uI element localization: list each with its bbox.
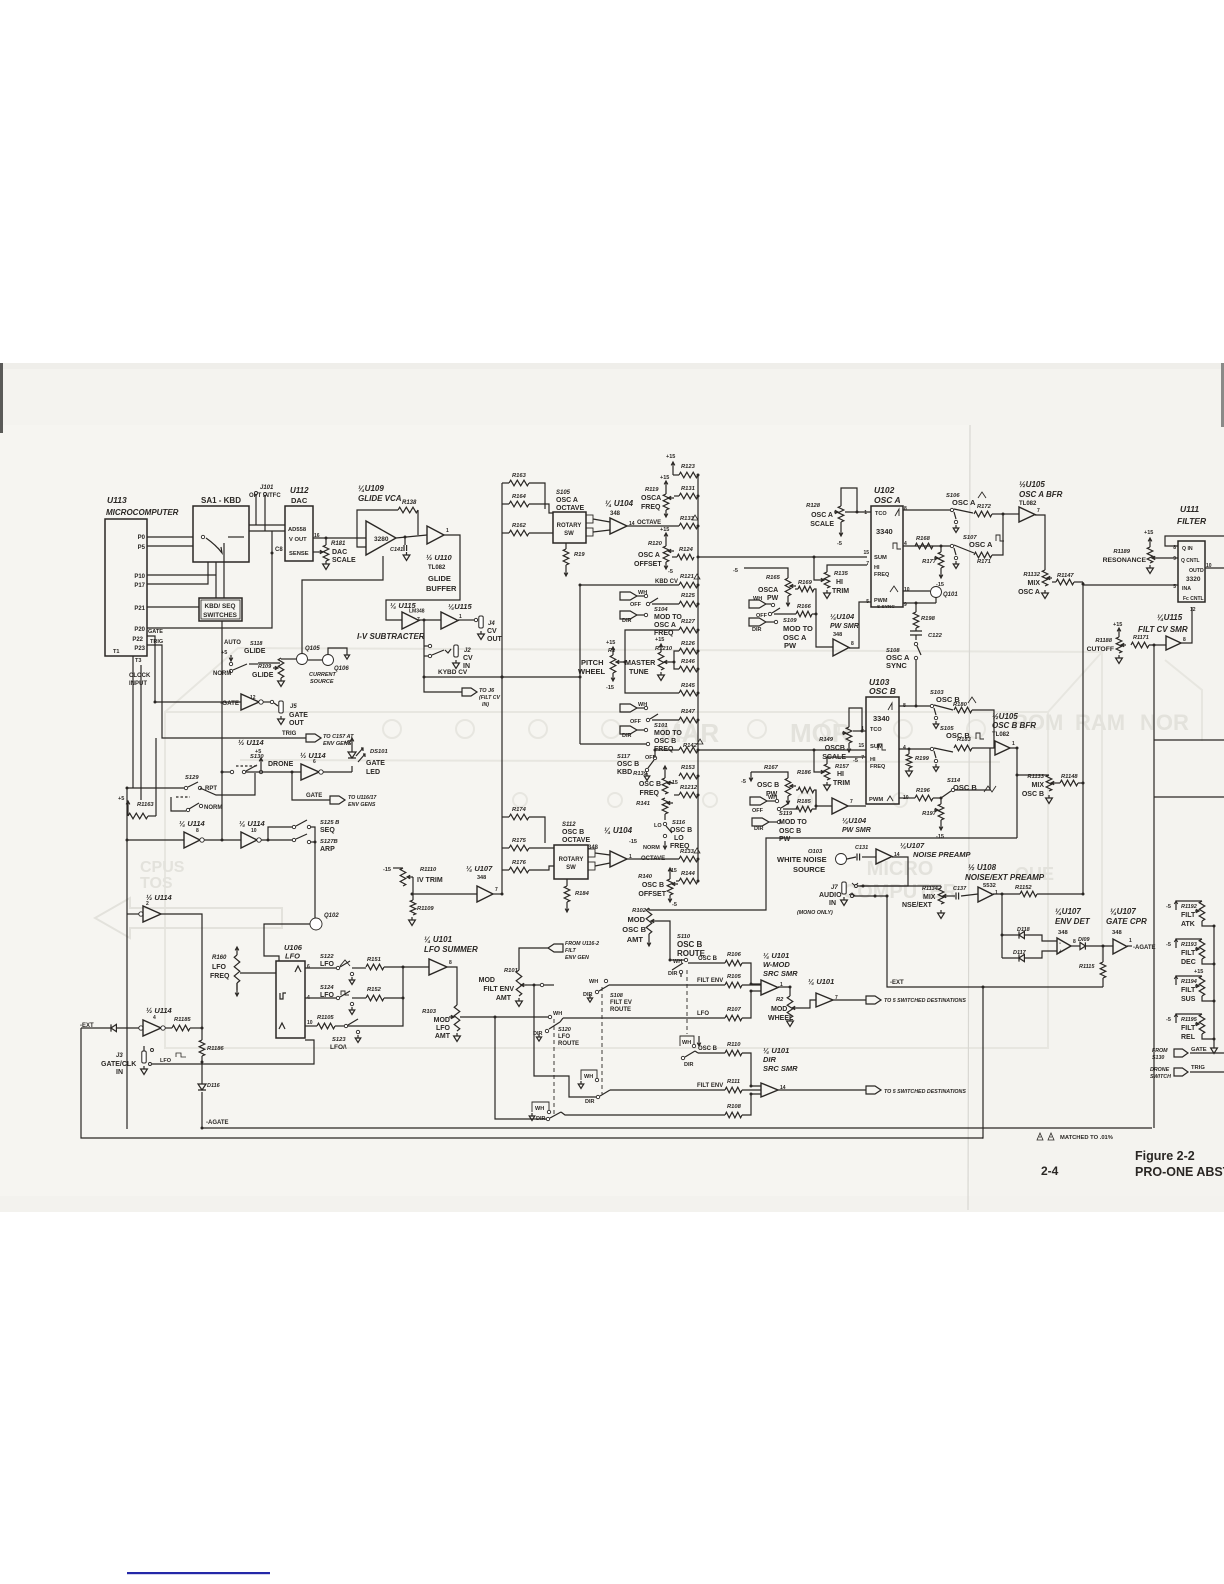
svg-text:R121: R121 (680, 574, 694, 580)
svg-text:¼U104: ¼U104 (830, 612, 855, 621)
svg-text:TL082: TL082 (1019, 501, 1037, 507)
svg-text:OSC B BFR: OSC B BFR (992, 721, 1036, 730)
resistor R174 (509, 814, 529, 820)
svg-text:DIR: DIR (754, 826, 764, 832)
svg-text:10: 10 (904, 587, 910, 593)
resistor R152 (352, 997, 366, 999)
svg-text:R1188: R1188 (1095, 638, 1112, 644)
wire cutoff down (1153, 645, 1155, 1128)
wire pwsmr A out (849, 602, 871, 648)
svg-text:½ U110: ½ U110 (426, 553, 453, 562)
svg-text:SWITCHES: SWITCHES (203, 612, 237, 619)
svg-text:OFFSET: OFFSET (638, 891, 666, 898)
wire resonance to pin (1157, 557, 1178, 559)
switch inside SA1-KBD (201, 535, 204, 538)
svg-text:SUS: SUS (1181, 996, 1196, 1003)
resistor R145 (679, 690, 698, 696)
note matched (1037, 1133, 1043, 1140)
svg-text:R1186: R1186 (207, 1046, 224, 1052)
wire filt env down (534, 985, 596, 1097)
resistor R121 warn (679, 582, 698, 588)
svg-text:R119: R119 (645, 487, 659, 493)
svg-text:LM348: LM348 (409, 609, 425, 615)
svg-text:SENSE: SENSE (289, 551, 309, 557)
svg-text:ATK: ATK (1181, 921, 1195, 928)
wire noise mix rails (852, 895, 887, 897)
svg-text:NSE/EXT: NSE/EXT (902, 902, 933, 909)
wire octave B (627, 858, 679, 860)
svg-text:J2: J2 (464, 648, 471, 654)
wire mod lfo line (460, 1016, 548, 1018)
svg-text:SUM: SUM (870, 744, 883, 750)
svg-text:R1192: R1192 (1181, 904, 1197, 910)
wire KYBD CV (424, 676, 580, 678)
svg-text:R128: R128 (806, 503, 821, 509)
svg-text:SCALE: SCALE (822, 754, 846, 761)
wire current source feed (302, 556, 383, 654)
resistor R105 (725, 982, 742, 988)
svg-text:MIX: MIX (923, 894, 936, 901)
wire mix wiper (948, 895, 955, 897)
svg-text:Figure 2-2: Figure 2-2 (1135, 1149, 1195, 1163)
svg-text:R186: R186 (797, 770, 812, 776)
svg-text:R163: R163 (512, 473, 527, 479)
wire LFO dir row (561, 1112, 725, 1115)
svg-text:MOD: MOD (771, 1006, 787, 1013)
svg-text:R1212: R1212 (680, 785, 698, 791)
wire summer out (447, 967, 457, 1005)
svg-text:8: 8 (1073, 939, 1076, 945)
svg-text:+5: +5 (255, 749, 261, 755)
svg-text:S105: S105 (556, 490, 571, 496)
svg-text:R147: R147 (681, 709, 696, 715)
wire LFO row (563, 1017, 725, 1019)
svg-text:MOD: MOD (434, 1017, 450, 1024)
wire subtracter to kybd cv (423, 620, 425, 677)
wire +5 drop (127, 810, 129, 816)
svg-text:OSC B: OSC B (698, 1046, 718, 1052)
flag FROM U116-2 (548, 944, 563, 952)
svg-text:1: 1 (446, 528, 449, 534)
svg-text:R103: R103 (422, 1009, 437, 1015)
svg-text:LFO: LFO (285, 952, 300, 961)
flag WH mod A (620, 592, 637, 600)
svg-text:7: 7 (495, 887, 498, 893)
svg-text:DRONE: DRONE (268, 761, 294, 768)
svg-text:TRIG: TRIG (1191, 1065, 1205, 1071)
svg-text:REL: REL (1181, 1034, 1196, 1041)
resistor R1185 (165, 1027, 172, 1029)
svg-text:R152: R152 (367, 987, 382, 993)
svg-text:¼ U114: ¼ U114 (239, 819, 266, 828)
svg-text:LFO SUMMER: LFO SUMMER (424, 945, 478, 954)
wire inverter input (127, 839, 184, 841)
svg-text:R144: R144 (681, 871, 696, 877)
svg-text:COMPUTER: COMPUTER (843, 881, 958, 903)
svg-text:D116: D116 (207, 1083, 221, 1089)
wire filt env wiper (527, 984, 540, 986)
svg-text:SWITCH: SWITCH (1150, 1074, 1171, 1080)
svg-text:Q106: Q106 (334, 666, 349, 672)
wire u108 out (993, 893, 1020, 895)
svg-text:-5: -5 (837, 541, 842, 547)
wire bfr B out (1010, 748, 1017, 838)
wire subtracter link (419, 619, 441, 621)
svg-text:FILT CV SMR: FILT CV SMR (1138, 625, 1188, 634)
svg-text:U111: U111 (1180, 504, 1199, 514)
svg-text:P20: P20 (134, 627, 145, 633)
svg-text:OSC B: OSC B (642, 882, 664, 889)
svg-text:R126: R126 (681, 641, 696, 647)
wire bfr A out (1035, 515, 1045, 570)
svg-text:3340: 3340 (876, 527, 893, 536)
svg-text:8: 8 (449, 960, 452, 966)
wire filt env dir row (610, 1089, 725, 1091)
svg-text:AMT: AMT (496, 995, 512, 1002)
wire Q IN loop (1165, 536, 1224, 546)
svg-text:OSCB: OSCB (825, 745, 845, 752)
svg-text:R199: R199 (915, 756, 930, 762)
wire osc mix down (649, 838, 1017, 910)
svg-text:½ U114: ½ U114 (146, 893, 173, 902)
svg-text:OFF: OFF (630, 602, 642, 608)
svg-text:NORM: NORM (213, 671, 231, 677)
svg-text:IN: IN (829, 900, 836, 907)
svg-text:Q CNTL: Q CNTL (1181, 558, 1200, 564)
svg-text:R111: R111 (727, 1079, 740, 1085)
svg-text:R123: R123 (681, 464, 696, 470)
wire SA1-KBD to DAC (249, 524, 285, 526)
svg-text:DIR: DIR (583, 992, 593, 998)
svg-text:-15: -15 (383, 867, 391, 873)
svg-text:P10: P10 (134, 574, 145, 580)
svg-text:-5: -5 (672, 902, 677, 908)
svg-text:LFO: LFO (160, 1058, 172, 1064)
svg-text:R102: R102 (632, 908, 647, 914)
svg-text:1: 1 (1012, 741, 1015, 747)
svg-text:OSC B: OSC B (779, 828, 801, 835)
svg-text:-AGATE: -AGATE (206, 1120, 229, 1126)
svg-text:OFF: OFF (752, 808, 764, 814)
svg-text:PW: PW (767, 595, 779, 602)
wire GATE from P22 (147, 636, 241, 702)
svg-text:PRO-ONE ABSTI: PRO-ONE ABSTI (1135, 1165, 1224, 1179)
svg-text:6: 6 (307, 964, 310, 970)
wire OUTD (1205, 567, 1224, 569)
wire to destinations 2 (778, 1089, 866, 1091)
wire osc b dir row (698, 1052, 725, 1054)
svg-text:FROM: FROM (1152, 1048, 1168, 1054)
svg-text:S119: S119 (779, 811, 793, 817)
opamp U104 PW SMR B (832, 798, 848, 814)
svg-text:ROUTE: ROUTE (610, 1007, 631, 1013)
resistor R151 (352, 967, 366, 969)
svg-text:OSC A: OSC A (874, 495, 901, 505)
flag DIR pwB (752, 818, 769, 826)
ground below R181 (323, 561, 330, 569)
switch S108 filt ev route (540, 983, 543, 986)
IC U106 LFO (276, 961, 305, 1038)
svg-text:348: 348 (1112, 930, 1122, 936)
svg-text:OSC B: OSC B (562, 829, 584, 836)
svg-text:¼ U101: ¼ U101 (763, 1046, 789, 1055)
svg-text:LFO: LFO (558, 1034, 570, 1040)
svg-text:ROTARY: ROTARY (557, 523, 582, 529)
svg-text:R1148: R1148 (1061, 774, 1078, 780)
resistor R163 (509, 480, 529, 486)
svg-text:C122: C122 (928, 633, 943, 639)
svg-text:DIR: DIR (622, 618, 632, 624)
svg-text:R1134: R1134 (922, 886, 938, 892)
blue underline bottom left (127, 1572, 270, 1574)
svg-text:R1195: R1195 (1181, 1017, 1198, 1023)
svg-text:R184: R184 (575, 891, 590, 897)
svg-text:OSC A: OSC A (638, 552, 660, 559)
svg-text:R151: R151 (367, 957, 381, 963)
svg-text:5532: 5532 (983, 883, 996, 889)
svg-text:-EXT: -EXT (890, 980, 904, 986)
svg-text:MOD TO: MOD TO (654, 730, 682, 737)
svg-text:R166: R166 (797, 604, 812, 610)
resistor R19 (565, 543, 567, 549)
svg-text:1: 1 (459, 614, 462, 620)
svg-text:GATE: GATE (366, 760, 385, 767)
flag to 5 switched 1 (866, 996, 881, 1004)
svg-text:R105: R105 (727, 974, 742, 980)
svg-text:LFO: LFO (320, 961, 335, 968)
svg-text:KBD: KBD (617, 769, 632, 776)
svg-text:OSC B: OSC B (1022, 791, 1044, 798)
svg-text:P17: P17 (134, 583, 145, 589)
svg-text:MATCHED TO .01%: MATCHED TO .01% (1060, 1135, 1113, 1141)
svg-text:OUTD: OUTD (1189, 568, 1204, 574)
wire kbd cv to S101 (580, 743, 646, 745)
svg-text:DIR: DIR (668, 971, 678, 977)
svg-text:P5: P5 (138, 545, 146, 551)
wire agate out (1127, 945, 1132, 947)
svg-text:FILT ENV: FILT ENV (697, 978, 723, 984)
svg-text:TL082: TL082 (428, 565, 446, 571)
svg-text:SYNC: SYNC (886, 661, 907, 670)
resistor R124 (677, 554, 694, 560)
svg-text:LFO: LFO (436, 1025, 451, 1032)
svg-text:R162: R162 (512, 523, 527, 529)
transistor Q102 (310, 918, 322, 930)
svg-text:3280: 3280 (374, 536, 389, 543)
svg-text:348: 348 (833, 632, 842, 638)
svg-text:¼ U101: ¼ U101 (763, 951, 789, 960)
wire bus main (697, 475, 699, 881)
svg-text:348: 348 (1058, 930, 1068, 936)
svg-text:TRIM: TRIM (833, 780, 850, 787)
resistor R1109 (412, 877, 414, 900)
svg-text:INPUT: INPUT (129, 681, 147, 687)
svg-text:SCALE: SCALE (332, 557, 356, 564)
svg-text:¼ U101: ¼ U101 (808, 977, 834, 986)
svg-text:P22: P22 (132, 637, 143, 643)
svg-text:¼U104: ¼U104 (842, 816, 867, 825)
resistor R153 (679, 773, 698, 779)
svg-text:C131: C131 (855, 845, 868, 851)
svg-text:MICROCOMPUTER: MICROCOMPUTER (106, 508, 179, 517)
svg-text:NOISE PREAMP: NOISE PREAMP (913, 850, 972, 859)
svg-text:+5: +5 (344, 740, 350, 746)
svg-text:ROUTE: ROUTE (558, 1041, 579, 1047)
svg-text:P21: P21 (134, 606, 145, 612)
svg-text:R140: R140 (638, 874, 653, 880)
svg-text:½ U108: ½ U108 (968, 863, 997, 872)
svg-text:OCTAVE: OCTAVE (637, 520, 661, 526)
svg-text:OFF: OFF (630, 719, 642, 725)
svg-text:R1110: R1110 (420, 867, 437, 873)
svg-text:IN): IN) (482, 702, 489, 708)
svg-text:R2: R2 (776, 997, 784, 1003)
wire Q106 collector (328, 648, 347, 654)
svg-text:FREQ: FREQ (654, 630, 674, 637)
svg-text:R1133: R1133 (1027, 774, 1044, 780)
svg-text:SW: SW (564, 531, 574, 537)
wire left octave rail (501, 483, 503, 894)
switch S125B SEQ (292, 825, 295, 828)
svg-text:WH: WH (553, 1011, 562, 1017)
svg-text:-AGATE: -AGATE (1133, 945, 1156, 951)
svg-text:OSC A: OSC A (556, 497, 578, 504)
svg-text:½ U114: ½ U114 (238, 738, 265, 747)
svg-text:PWM: PWM (869, 797, 883, 803)
svg-text:TO 5 SWITCHED DESTINATIONS: TO 5 SWITCHED DESTINATIONS (884, 998, 966, 1004)
svg-text:-5: -5 (853, 758, 858, 764)
resistor R168 (915, 543, 933, 549)
svg-text:¼ U104: ¼ U104 (604, 826, 633, 835)
svg-text:SA1 - KBD: SA1 - KBD (201, 496, 241, 505)
svg-text:R174: R174 (512, 807, 527, 813)
svg-text:FILT: FILT (1181, 912, 1196, 919)
svg-text:R196: R196 (916, 788, 931, 794)
svg-text:J3: J3 (116, 1053, 123, 1059)
svg-text:DAC: DAC (332, 549, 347, 556)
svg-text:R1194: R1194 (1181, 979, 1197, 985)
wire osc b row (688, 962, 725, 964)
wire wmod out (778, 987, 790, 996)
resistor R164 (509, 501, 529, 507)
svg-text:Q101: Q101 (943, 592, 958, 598)
svg-text:NOISE/EXT PREAMP: NOISE/EXT PREAMP (965, 873, 1045, 882)
svg-text:SOURCE: SOURCE (310, 679, 334, 685)
svg-text:S116: S116 (672, 820, 686, 826)
resistor R196 (915, 795, 933, 801)
wire rpt to drone (200, 773, 255, 795)
svg-text:MOD TO: MOD TO (783, 624, 813, 633)
LED DS101 (323, 771, 352, 773)
svg-text:R1115: R1115 (1079, 964, 1095, 970)
svg-text:R108: R108 (727, 1104, 742, 1110)
svg-text:S101: S101 (654, 723, 668, 729)
resistor R199 (908, 749, 910, 754)
svg-text:Fc CNTL: Fc CNTL (1183, 596, 1204, 602)
wire cv buffer out (493, 893, 502, 895)
svg-text:RESONANCE: RESONANCE (1103, 557, 1147, 564)
wire GATE tap (292, 772, 330, 800)
svg-text:TRIG: TRIG (150, 639, 163, 645)
svg-text:SEQ: SEQ (320, 827, 335, 834)
svg-text:IN: IN (116, 1069, 123, 1076)
svg-text:LED: LED (366, 769, 380, 776)
svg-text:R131: R131 (681, 486, 695, 492)
svg-text:OUT: OUT (289, 720, 305, 727)
svg-text:1: 1 (995, 890, 998, 896)
svg-text:1: 1 (1129, 938, 1132, 944)
svg-text:4: 4 (903, 745, 906, 751)
flag WH pwA (749, 600, 766, 608)
wire SA1-KBD to KBD/SEQ box (215, 562, 217, 598)
svg-text:GATE: GATE (306, 793, 322, 799)
svg-text:R135: R135 (834, 571, 849, 577)
svg-text:T1: T1 (113, 649, 119, 655)
svg-text:-5: -5 (1166, 1017, 1171, 1023)
svg-text:SRC SMR: SRC SMR (763, 1064, 798, 1073)
svg-text:CURRENT: CURRENT (309, 672, 337, 678)
wire P20 (147, 531, 272, 628)
svg-text:S124: S124 (320, 985, 334, 991)
svg-text:+15: +15 (1113, 622, 1122, 628)
flag WH mod B (620, 704, 637, 712)
switch S122 LFO saw (305, 967, 336, 969)
svg-text:S117: S117 (617, 754, 631, 760)
svg-text:8: 8 (1183, 637, 1186, 643)
svg-text:S112: S112 (562, 822, 576, 828)
wire buffer out (386, 535, 460, 620)
svg-text:OSC B: OSC B (639, 781, 661, 788)
resistor R142 warn (679, 747, 698, 753)
svg-text:DIR: DIR (763, 1055, 777, 1064)
svg-text:OSC A: OSC A (952, 498, 976, 507)
svg-text:2: 2 (146, 901, 149, 907)
IC U102 OSC A (871, 506, 903, 607)
switch S120 LFO route (548, 1015, 551, 1018)
svg-text:KYBD CV: KYBD CV (438, 669, 468, 676)
wire tune taps (671, 651, 679, 669)
svg-text:¼ U104: ¼ U104 (605, 499, 634, 508)
wire Fc CNTL (1181, 607, 1192, 643)
wire noise switch rails (858, 885, 941, 887)
transistor Q101 (903, 590, 930, 592)
svg-text:FREQ: FREQ (210, 973, 230, 980)
diode D109 (1071, 945, 1080, 947)
svg-text:PW SMR: PW SMR (830, 623, 859, 630)
svg-text:S108: S108 (610, 993, 624, 999)
svg-text:R1185: R1185 (174, 1017, 191, 1023)
wire pulse B out (899, 748, 930, 750)
svg-text:LO: LO (674, 835, 684, 842)
svg-text:PITCH: PITCH (581, 658, 604, 667)
switch NORM (171, 797, 186, 811)
capacitor C141 (404, 537, 406, 545)
svg-text:10: 10 (307, 1020, 313, 1026)
svg-text:Q105: Q105 (305, 646, 320, 652)
resistor R1212 (679, 792, 698, 798)
box right block (1154, 740, 1224, 797)
svg-text:R153: R153 (681, 765, 696, 771)
svg-text:KBD/ SEQ: KBD/ SEQ (205, 603, 236, 610)
resistor R106 (725, 960, 742, 966)
svg-text:LFO: LFO (212, 964, 227, 971)
svg-text:MOD: MOD (628, 915, 646, 924)
svg-text:OSC B: OSC B (670, 827, 692, 834)
svg-text:(MONO ONLY): (MONO ONLY) (797, 910, 833, 916)
wire INA line (1083, 584, 1178, 586)
svg-text:S125 B: S125 B (320, 820, 339, 826)
svg-text:DEC: DEC (1181, 959, 1196, 966)
